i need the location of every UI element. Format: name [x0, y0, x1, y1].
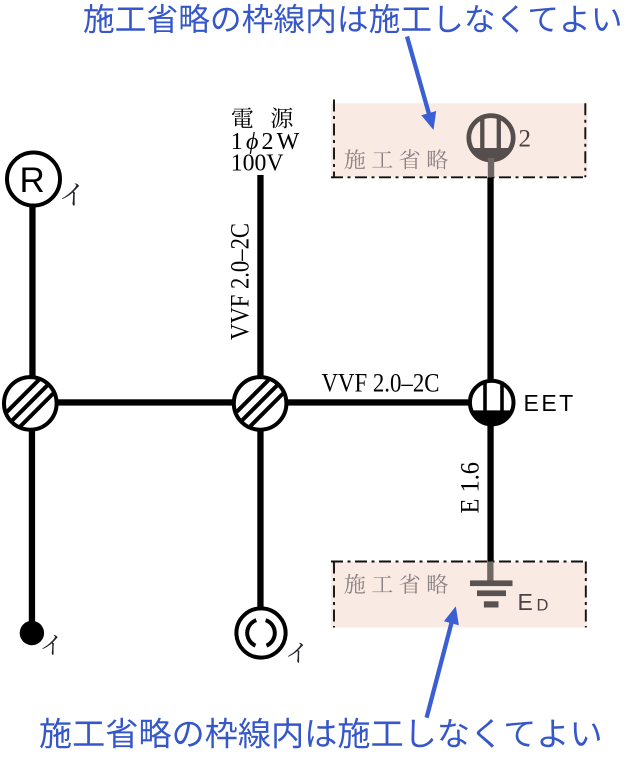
- svg-text:D: D: [537, 597, 549, 615]
- wire: source to middle junction box: [257, 175, 263, 376]
- hanging lamp 引掛シーリング: [236, 608, 285, 657]
- 施工省略 label (top box): [344, 149, 447, 169]
- callout arrow (bottom): [427, 616, 454, 718]
- 施工省略 box (top): [331, 100, 588, 178]
- circuit label イ (lamp): [288, 643, 303, 663]
- wire: EET outlet down to ground: [487, 423, 493, 562]
- lamp receptacle R: [7, 153, 60, 206]
- outlet EET: [470, 381, 576, 425]
- callout arrow (top): [407, 37, 431, 121]
- power source label 電源 1φ2W 100V: [231, 107, 300, 176]
- svg-text:E 1.6: E 1.6: [456, 462, 485, 514]
- svg-text:EET: EET: [524, 390, 576, 416]
- 施工省略 label (bottom box): [344, 574, 447, 594]
- note: top instruction text: [84, 4, 620, 33]
- svg-text:VVF 2.0–2C: VVF 2.0–2C: [322, 368, 440, 397]
- wire: middle box down to hanging lamp: [257, 429, 263, 607]
- switch イ: [20, 621, 44, 645]
- svg-text:100V: 100V: [231, 151, 284, 177]
- circuit label イ (receptacle): [62, 183, 79, 205]
- wire: ceiling outlet to EET outlet: [487, 177, 493, 379]
- junction box (middle): [234, 377, 287, 430]
- junction box (left): [4, 377, 57, 430]
- wire: left box down to switch: [29, 430, 35, 622]
- svg-text:E: E: [518, 589, 533, 615]
- ceiling outlet 2 (in 施工省略 box): [469, 116, 531, 178]
- wire: left box to middle box: [55, 399, 233, 405]
- wire: receptacle to left junction box: [29, 205, 35, 377]
- note: bottom instruction text: [40, 718, 600, 749]
- circuit label イ (switch): [42, 635, 57, 655]
- svg-text:2: 2: [519, 125, 532, 152]
- svg-text:R: R: [20, 161, 45, 200]
- 施工省略 box (bottom): [331, 562, 588, 628]
- ground electrode ED: [470, 562, 549, 616]
- svg-text:VVF 2.0–2C: VVF 2.0–2C: [226, 223, 255, 340]
- wire: middle box to EET outlet: [286, 399, 468, 405]
